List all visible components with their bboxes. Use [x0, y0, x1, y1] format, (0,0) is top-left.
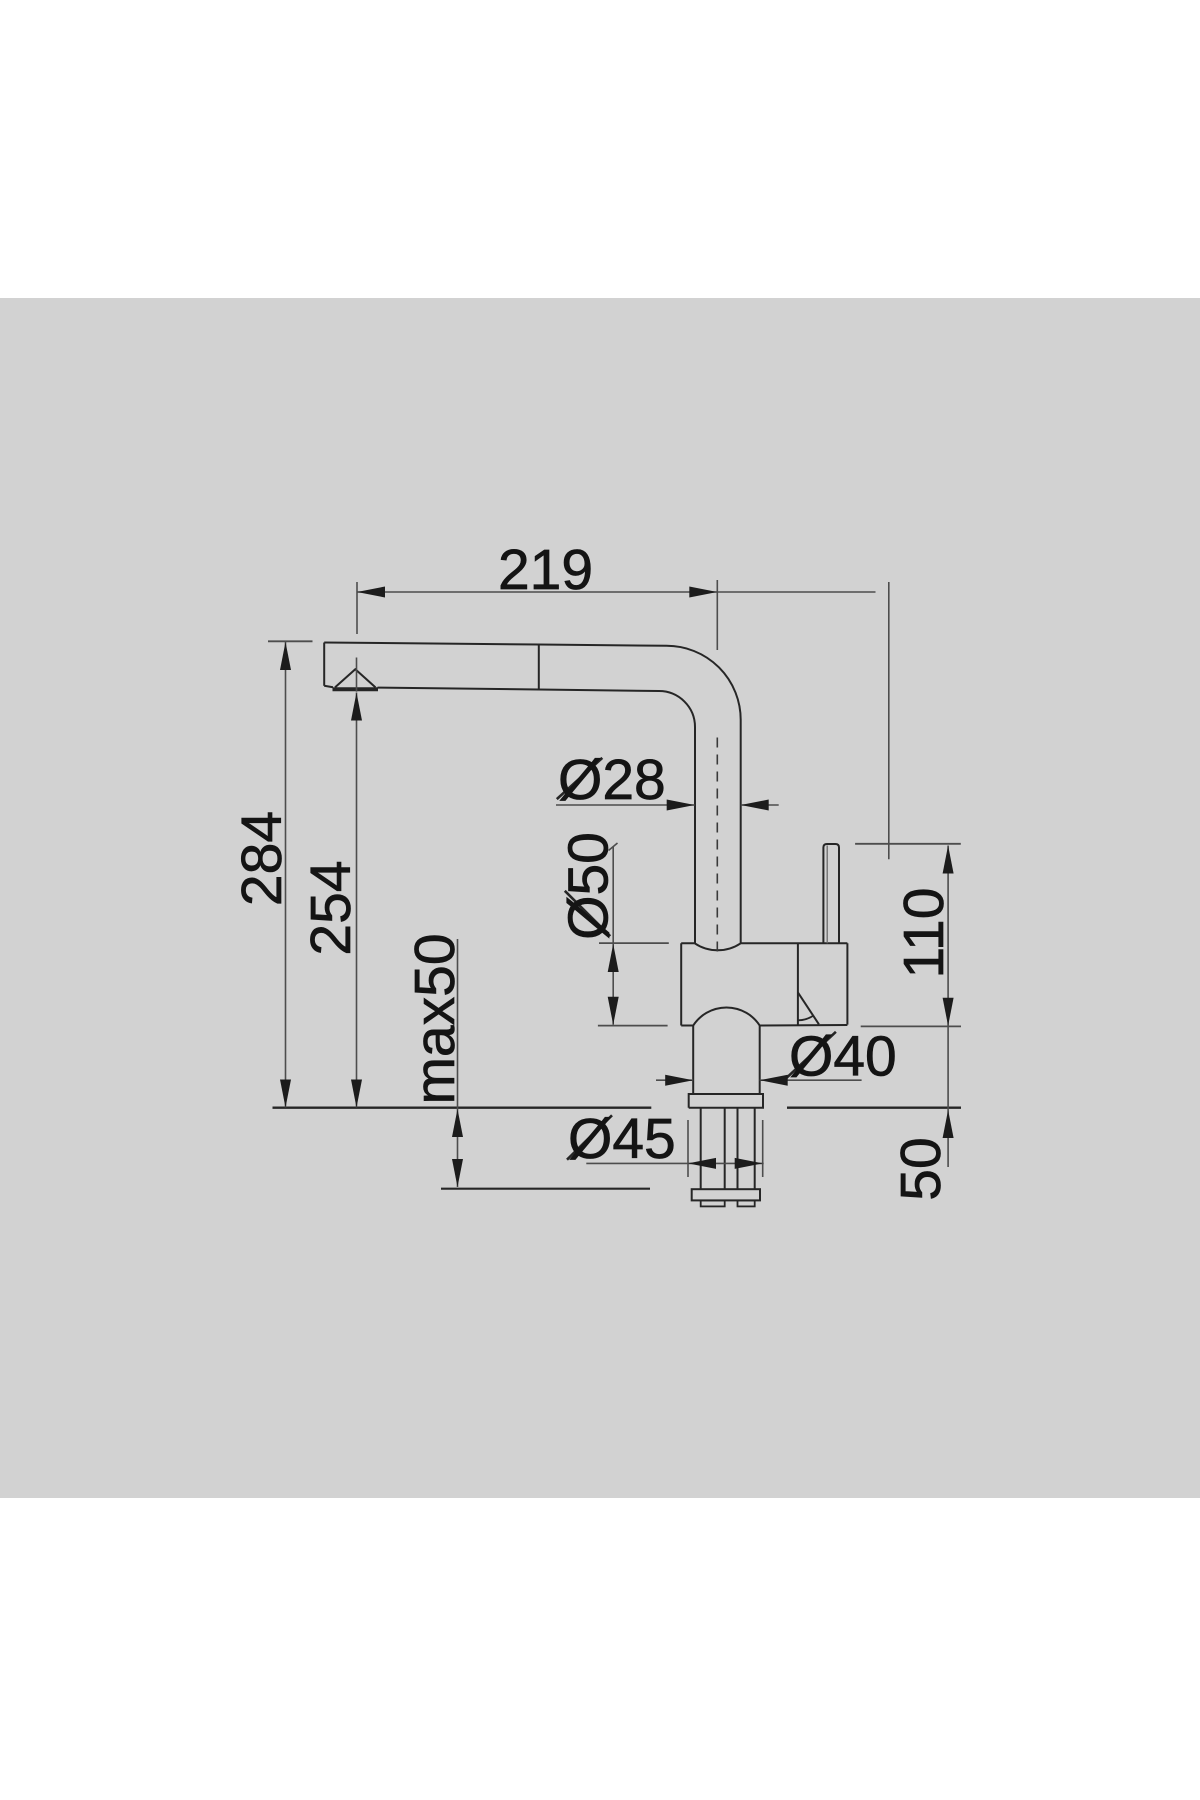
lever joint diagonal	[798, 992, 819, 1024]
dim O40 slash	[785, 1032, 836, 1079]
body bottom tick left	[598, 1025, 668, 1027]
counter underside line	[441, 1188, 650, 1190]
arrow O45 left	[688, 1158, 716, 1169]
arrow O50 top	[608, 944, 619, 972]
arrow max50 top	[452, 1109, 463, 1137]
spout top tick	[268, 640, 313, 642]
base cylinder left wall	[692, 1026, 694, 1095]
arrow O40 right	[760, 1075, 788, 1086]
dim 219 line	[357, 591, 876, 593]
pipe dashed centerline	[716, 738, 718, 953]
lever joint arc	[798, 1016, 813, 1021]
arrow max50 bottom	[452, 1159, 463, 1187]
body top edge with pipe fillet	[681, 943, 847, 950]
fastening nut	[692, 1189, 760, 1200]
handle top tick	[855, 843, 961, 845]
body bottom tick right	[861, 1025, 961, 1027]
dim O50 top slash tick	[609, 843, 618, 851]
svg-text:284: 284	[230, 811, 294, 906]
nut tab right	[738, 1200, 755, 1206]
aerator triangle	[335, 669, 376, 687]
pull-out head divider line	[538, 645, 540, 690]
handle block right edge	[846, 943, 848, 1024]
arrow 254 bottom	[351, 1080, 362, 1108]
spout bottom outline and inner bend	[324, 686, 695, 944]
dim 219 left extension / aerator axis upper	[356, 582, 358, 634]
dim max50 vertical line	[457, 939, 459, 1187]
body top tick left	[599, 942, 669, 944]
svg-text:50: 50	[889, 1137, 953, 1200]
threaded shank walls	[701, 1108, 755, 1190]
svg-text:Ø45: Ø45	[568, 1107, 676, 1171]
body left edge	[680, 943, 682, 1025]
dim 110-50 vertical line	[947, 846, 949, 1168]
arrow 284 bottom	[280, 1080, 291, 1108]
svg-text:219: 219	[498, 538, 593, 602]
dim 284 vertical line	[285, 642, 287, 1108]
svg-text:Ø40: Ø40	[789, 1025, 897, 1089]
arrow 50 top	[943, 1110, 954, 1138]
dim O45 right extension	[762, 1120, 764, 1177]
arrow 219 left	[357, 587, 385, 598]
handle lever	[823, 844, 839, 943]
nut tab left	[701, 1200, 725, 1206]
dim O28 slash	[557, 758, 603, 799]
body-handle divider edge	[797, 943, 799, 1025]
dim O50 slash extension	[565, 891, 610, 936]
arrow O40 left	[665, 1075, 693, 1086]
svg-text:254: 254	[299, 860, 363, 955]
arrow O45 right	[735, 1158, 763, 1169]
spout tip left edge	[323, 643, 325, 686]
dim 219 right extension	[716, 580, 718, 650]
countertop line left segment	[273, 1106, 652, 1108]
arrow O50 bottom	[608, 997, 619, 1025]
svg-text:max50: max50	[403, 933, 467, 1104]
arrow 110 top	[943, 846, 954, 874]
arrow O28 right	[741, 800, 769, 811]
arrow 219 right	[689, 587, 717, 598]
handle extension vertical	[888, 582, 890, 859]
svg-text:110: 110	[892, 888, 956, 979]
dim O50 vertical line	[612, 847, 614, 1025]
svg-text:Ø28: Ø28	[558, 748, 666, 812]
aerator axis middle segment	[356, 658, 358, 692]
mounting flange	[689, 1094, 763, 1108]
dim O45 line	[586, 1162, 763, 1164]
dim 254 vertical line	[356, 693, 358, 1108]
aerator plate	[333, 687, 379, 691]
body bottom edge with base dome	[681, 1007, 847, 1025]
gray product image background	[0, 298, 1200, 1498]
handle lever inner line	[826, 846, 828, 944]
base cylinder right wall	[759, 1026, 761, 1095]
arrow 110 bottom	[943, 998, 954, 1026]
arrow 284 top	[280, 642, 291, 670]
dim O45 slash	[567, 1115, 612, 1159]
dim O40 line	[656, 1079, 862, 1081]
arrow 254 top	[351, 693, 362, 721]
arrow O28 left	[667, 800, 695, 811]
countertop line right segment	[787, 1106, 961, 1108]
svg-text:Ø50: Ø50	[557, 832, 621, 940]
spout top outline and outer bend	[324, 643, 741, 944]
dim O28 leader lines	[556, 804, 779, 806]
dim O45 left extension	[687, 1120, 689, 1177]
